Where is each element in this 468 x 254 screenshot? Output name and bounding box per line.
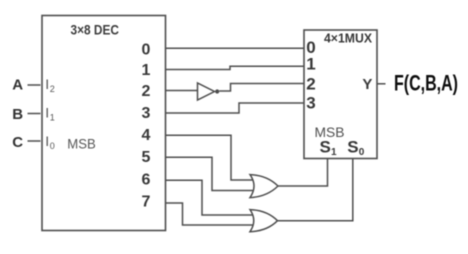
svg-text:3: 3 (306, 94, 315, 113)
svg-text:1: 1 (50, 113, 55, 123)
mux U2 4x1MUX box (304, 30, 377, 159)
svg-text:I: I (45, 76, 49, 92)
svg-text:S: S (347, 138, 358, 157)
decoder U1 3x8 DEC box (42, 16, 166, 231)
wire decoder out 5 to or1 bottom input (166, 157, 254, 190)
svg-text:Y: Y (362, 76, 372, 93)
svg-text:2: 2 (142, 83, 151, 100)
svg-text:1: 1 (306, 55, 315, 74)
wire buffer out to mux in 2 (219, 84, 304, 92)
pin I1 (45, 105, 55, 123)
svg-text:2: 2 (50, 84, 55, 94)
wire decoder out 0 to mux in 0 (166, 47, 304, 49)
wire decoder out 2 to buffer (166, 90, 198, 92)
svg-text:4×1MUX: 4×1MUX (324, 30, 372, 45)
svg-text:5: 5 (142, 149, 151, 166)
svg-text:I: I (45, 133, 49, 149)
inverter bubble on buffer (215, 89, 219, 93)
svg-text:1: 1 (142, 62, 151, 79)
pin S1 (320, 138, 338, 158)
pin I0 (45, 133, 55, 151)
wire decoder out 7 to or2 bottom input (166, 203, 254, 225)
wire decoder out 1 to mux in 1 (166, 66, 304, 69)
svg-text:C: C (12, 134, 23, 151)
svg-text:A: A (12, 77, 23, 94)
svg-text:0: 0 (142, 42, 151, 59)
wire decoder out 4 to or1 top input (166, 135, 254, 180)
svg-text:3: 3 (142, 105, 151, 122)
svg-text:0: 0 (359, 147, 365, 158)
svg-text:6: 6 (142, 172, 151, 189)
svg-text:B: B (12, 106, 23, 123)
svg-text:2: 2 (306, 75, 315, 94)
svg-text:I: I (45, 105, 49, 121)
wire or2 output to S0 (278, 159, 353, 221)
or-gate G1 (250, 175, 278, 198)
svg-text:1: 1 (331, 147, 337, 158)
wire decoder out 3 to mux in 3 (166, 103, 304, 113)
wire input A (28, 84, 41, 86)
wire Y output (377, 83, 386, 85)
svg-text:4: 4 (142, 127, 151, 144)
buffer U3 on line 2 (198, 83, 215, 100)
wire decoder out 6 to or2 top input (166, 180, 254, 215)
pin S0 (347, 138, 365, 158)
wire input B (28, 113, 41, 115)
or-gate G2 (250, 210, 278, 232)
svg-text:3×8 DEC: 3×8 DEC (71, 22, 120, 38)
svg-text:0: 0 (50, 141, 55, 151)
wire or1 output to S1 (278, 159, 328, 186)
svg-text:F(C,B,A): F(C,B,A) (394, 71, 458, 96)
wire input C (28, 140, 41, 142)
svg-text:7: 7 (142, 194, 151, 211)
svg-text:S: S (320, 138, 331, 157)
svg-text:MSB: MSB (67, 135, 96, 151)
pin I2 (45, 76, 55, 94)
